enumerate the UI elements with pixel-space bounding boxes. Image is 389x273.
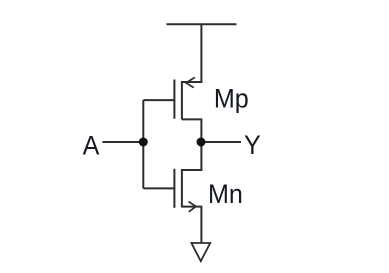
wire: VDD stem down to Mp source lead <box>182 24 202 82</box>
node: output junction dot <box>197 138 206 147</box>
transistor Mn <box>143 142 201 243</box>
Mp gate bar <box>173 80 175 119</box>
wire: gate net vertical <box>142 100 144 188</box>
wire: output node to Y <box>201 141 241 143</box>
Mp channel bar <box>181 81 183 119</box>
Mn gate lead <box>143 187 174 189</box>
wire: input A to gate junction <box>103 141 144 143</box>
node: input junction dot <box>139 138 148 147</box>
Mn source arrow (points out of channel) <box>189 202 197 212</box>
Mp source arrow (points into channel) <box>186 77 195 87</box>
Mn channel bar <box>181 169 183 208</box>
power rail VDD <box>167 23 237 25</box>
svg-text:Mn: Mn <box>208 178 243 209</box>
Mp gate lead <box>143 99 174 101</box>
Mn gate bar <box>173 169 175 208</box>
Mn drain lead from output node <box>182 142 202 170</box>
ground symbol <box>191 243 210 261</box>
Mp drain lead down to output node <box>182 119 202 142</box>
Mn source lead down to ground <box>182 207 202 243</box>
transistor Mp <box>143 77 201 142</box>
svg-text:Mp: Mp <box>214 83 249 114</box>
svg-text:A: A <box>83 130 100 161</box>
svg-text:Y: Y <box>244 129 261 160</box>
